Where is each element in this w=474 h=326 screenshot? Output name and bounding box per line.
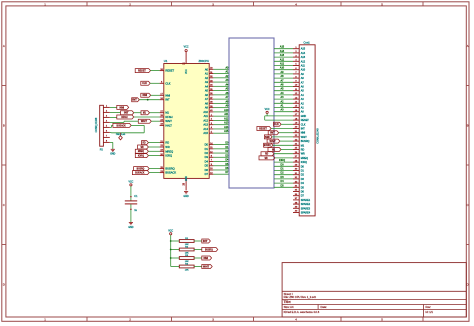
svg-text:RESET: RESET xyxy=(138,69,146,73)
svg-text:RFSH: RFSH xyxy=(121,115,127,119)
svg-text:B: B xyxy=(467,123,469,127)
svg-text:A10: A10 xyxy=(301,69,306,72)
svg-text:A: A xyxy=(467,44,469,48)
svg-text:VCC: VCC xyxy=(168,230,173,232)
svg-text:MREQ: MREQ xyxy=(301,157,308,160)
svg-text:A14: A14 xyxy=(301,52,306,55)
svg-text:A10: A10 xyxy=(203,110,208,114)
svg-text:RESET: RESET xyxy=(259,126,267,130)
svg-text:MREQ: MREQ xyxy=(165,149,173,153)
svg-text:A15: A15 xyxy=(224,130,229,133)
svg-text:A12: A12 xyxy=(280,58,285,61)
svg-text:RD: RD xyxy=(301,148,305,151)
svg-text:RD: RD xyxy=(265,152,268,156)
svg-text:NMI: NMI xyxy=(143,93,148,97)
svg-text:RESET: RESET xyxy=(301,119,310,122)
svg-text:CLK: CLK xyxy=(142,81,147,85)
svg-text:WAIT: WAIT xyxy=(301,136,307,139)
svg-text:INT: INT xyxy=(301,127,305,130)
svg-text:INT: INT xyxy=(270,131,275,135)
svg-text:D1: D1 xyxy=(205,147,209,151)
svg-text:Size: A4: Size: A4 xyxy=(284,305,294,309)
svg-text:A12: A12 xyxy=(203,118,208,122)
svg-text:A14: A14 xyxy=(280,50,285,53)
svg-text:M1: M1 xyxy=(165,111,169,115)
svg-text:A14: A14 xyxy=(224,126,229,129)
svg-text:CLK: CLK xyxy=(274,122,279,126)
svg-text:B: B xyxy=(3,123,5,127)
svg-text:Title:: Title: xyxy=(284,300,292,304)
svg-text:CONN_01X40: CONN_01X40 xyxy=(317,128,320,144)
svg-text:C: C xyxy=(467,203,469,207)
svg-text:D7: D7 xyxy=(205,172,209,176)
svg-text:NMI: NMI xyxy=(203,256,208,260)
svg-text:A15: A15 xyxy=(301,48,306,51)
svg-text:Sheet: /: Sheet: / xyxy=(284,292,294,296)
svg-text:KiCad E.D.A. eeschema 4.0.6: KiCad E.D.A. eeschema 4.0.6 xyxy=(284,310,320,314)
svg-text:A0: A0 xyxy=(205,67,209,71)
svg-text:A13: A13 xyxy=(280,54,285,57)
svg-text:NMI: NMI xyxy=(301,132,306,135)
svg-text:IORQ: IORQ xyxy=(279,159,285,162)
svg-text:CLK: CLK xyxy=(165,81,170,85)
svg-text:NMI: NMI xyxy=(120,105,125,109)
svg-text:C: C xyxy=(3,203,5,207)
svg-text:WAIT: WAIT xyxy=(270,139,277,143)
svg-text:A11: A11 xyxy=(280,62,285,65)
svg-text:D3: D3 xyxy=(205,155,209,159)
svg-text:A10: A10 xyxy=(280,67,285,70)
svg-text:NMI: NMI xyxy=(265,135,270,139)
svg-text:RD: RD xyxy=(143,141,146,145)
svg-text:NMI: NMI xyxy=(165,93,170,97)
svg-text:A3: A3 xyxy=(205,80,209,84)
svg-text:D2: D2 xyxy=(205,151,209,155)
svg-text:WR: WR xyxy=(301,153,305,156)
svg-text:INT: INT xyxy=(165,98,170,102)
svg-text:A9: A9 xyxy=(205,106,209,110)
svg-text:A1: A1 xyxy=(205,72,209,76)
svg-text:BUSACK: BUSACK xyxy=(165,171,176,175)
svg-text:WAIT: WAIT xyxy=(203,264,210,268)
svg-text:A11: A11 xyxy=(301,64,306,67)
svg-text:Id: 1/1: Id: 1/1 xyxy=(426,310,434,314)
svg-text:GND: GND xyxy=(186,176,188,181)
svg-text:WR: WR xyxy=(165,145,169,149)
svg-text:M1: M1 xyxy=(272,147,276,151)
svg-text:A10: A10 xyxy=(224,109,229,112)
svg-text:D4: D4 xyxy=(205,159,209,163)
svg-text:BUSACK: BUSACK xyxy=(117,123,126,127)
svg-text:Rev:: Rev: xyxy=(426,305,432,309)
svg-text:INT: INT xyxy=(132,98,137,102)
svg-text:A2: A2 xyxy=(205,76,209,80)
svg-text:MREQ: MREQ xyxy=(138,149,144,153)
svg-text:BUSRQ: BUSRQ xyxy=(264,143,271,147)
svg-text:A11: A11 xyxy=(224,113,229,116)
svg-text:Date:: Date: xyxy=(321,305,328,309)
svg-text:Con1: Con1 xyxy=(304,41,311,45)
svg-text:BUSRQ: BUSRQ xyxy=(205,247,213,251)
svg-text:D: D xyxy=(467,282,469,286)
svg-text:BUSRQ: BUSRQ xyxy=(301,140,310,143)
svg-text:VCC: VCC xyxy=(265,109,270,111)
svg-text:WR: WR xyxy=(265,156,268,160)
svg-text:A13: A13 xyxy=(301,56,306,59)
svg-text:GND: GND xyxy=(110,154,115,156)
svg-text:VCC: VCC xyxy=(186,69,188,74)
svg-text:A12: A12 xyxy=(301,60,306,63)
svg-text:VCC: VCC xyxy=(128,181,133,183)
svg-text:GND: GND xyxy=(301,115,307,118)
svg-text:SPARE4: SPARE4 xyxy=(301,211,311,214)
svg-text:CONN_01X08: CONN_01X08 xyxy=(96,117,98,132)
svg-text:SPARE1: SPARE1 xyxy=(301,199,311,202)
svg-text:VCC: VCC xyxy=(184,46,189,48)
svg-text:SPARE3: SPARE3 xyxy=(301,207,311,210)
svg-text:CLK: CLK xyxy=(301,123,306,126)
svg-text:IORQ: IORQ xyxy=(301,161,307,164)
svg-text:BUSACK: BUSACK xyxy=(135,171,144,175)
svg-text:WAIT: WAIT xyxy=(141,119,148,123)
svg-text:A12: A12 xyxy=(224,117,229,120)
svg-text:GND: GND xyxy=(184,196,189,198)
svg-text:A15: A15 xyxy=(280,46,285,49)
svg-text:P2: P2 xyxy=(100,147,104,151)
svg-text:Z80CPU: Z80CPU xyxy=(198,59,209,63)
svg-text:M1: M1 xyxy=(143,111,147,115)
svg-text:10K: 10K xyxy=(185,270,189,272)
svg-text:RFSH: RFSH xyxy=(165,115,172,119)
svg-text:D5: D5 xyxy=(205,164,209,168)
svg-text:IORQ: IORQ xyxy=(165,154,172,158)
svg-text:INT: INT xyxy=(124,111,129,115)
svg-text:WAIT: WAIT xyxy=(165,119,172,123)
svg-text:RESET: RESET xyxy=(165,69,174,73)
svg-text:HALT: HALT xyxy=(165,123,172,127)
svg-text:RD: RD xyxy=(165,141,169,145)
svg-text:GND: GND xyxy=(128,227,133,229)
svg-text:D6: D6 xyxy=(205,168,209,172)
svg-text:U1: U1 xyxy=(164,59,168,63)
svg-text:SPARE2: SPARE2 xyxy=(301,203,311,206)
svg-text:A7: A7 xyxy=(205,97,209,101)
svg-text:D: D xyxy=(3,282,5,286)
svg-text:BUSRQ: BUSRQ xyxy=(137,167,145,171)
svg-text:IORQ: IORQ xyxy=(138,154,144,158)
svg-text:A5: A5 xyxy=(205,89,209,93)
svg-text:INT: INT xyxy=(203,239,208,243)
svg-text:WR: WR xyxy=(141,145,144,149)
svg-text:File: Z80 CPU Rev 1_3.sch: File: Z80 CPU Rev 1_3.sch xyxy=(284,295,317,299)
svg-text:A: A xyxy=(3,44,5,48)
svg-text:A8: A8 xyxy=(205,101,209,105)
svg-text:BUSRQ: BUSRQ xyxy=(165,167,174,171)
svg-text:A15: A15 xyxy=(203,131,208,135)
svg-text:D0: D0 xyxy=(205,143,209,147)
svg-text:A13: A13 xyxy=(224,122,229,125)
svg-text:A13: A13 xyxy=(203,123,208,127)
svg-text:A4: A4 xyxy=(205,84,209,88)
svg-text:A14: A14 xyxy=(203,127,208,131)
svg-text:PWR_FLAG: PWR_FLAG xyxy=(116,133,126,136)
svg-text:A11: A11 xyxy=(204,114,209,118)
svg-text:A6: A6 xyxy=(205,93,209,97)
